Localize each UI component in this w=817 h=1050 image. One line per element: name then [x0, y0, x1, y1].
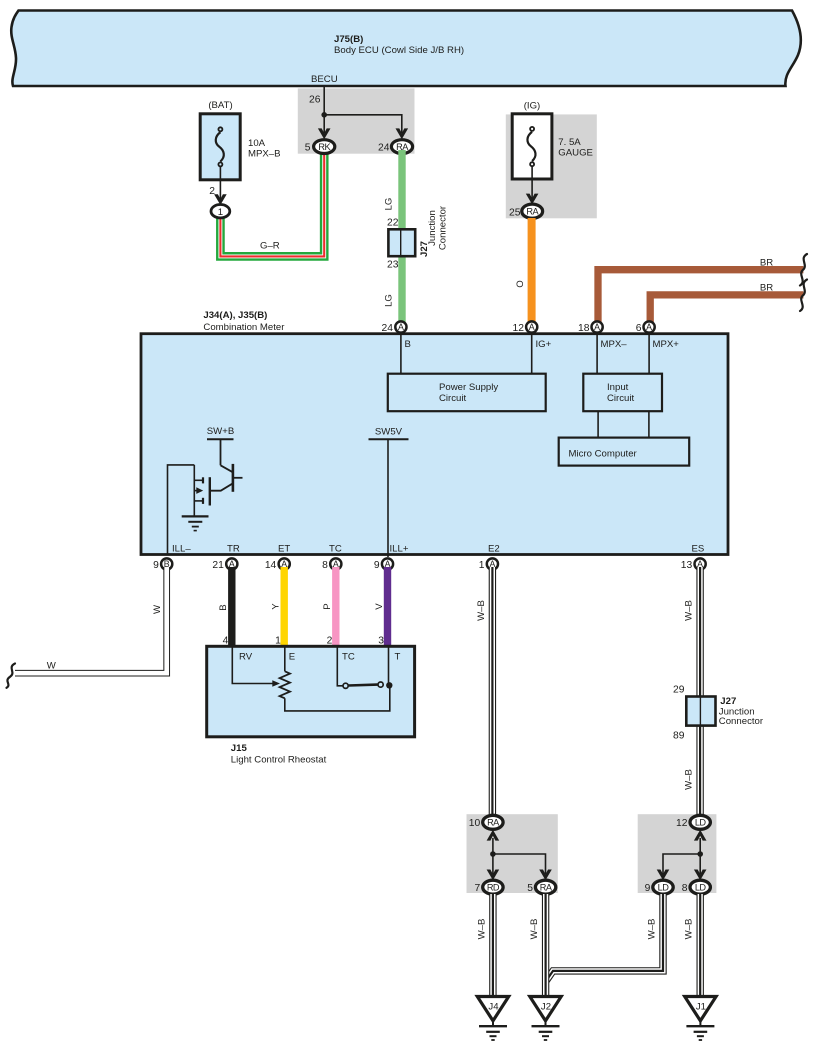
- wire ILL- riser to gate: [168, 465, 195, 554]
- terminal 1 oval: [211, 205, 230, 218]
- svg-text:LD: LD: [695, 883, 707, 893]
- resistor zigzag: [280, 671, 290, 698]
- relay shade box right: [638, 814, 717, 893]
- switch lever: [349, 683, 378, 687]
- wire V violet ILL+: [384, 567, 391, 648]
- svg-text:14: 14: [265, 560, 277, 571]
- wire BR to MPX+: [650, 295, 803, 322]
- node dot left: [490, 851, 496, 857]
- node T dot: [386, 682, 392, 688]
- input circuit box: [583, 374, 662, 412]
- svg-text:T: T: [395, 652, 401, 663]
- mosfet stub upper: [194, 479, 203, 481]
- wire E lead: [284, 646, 286, 671]
- svg-text:A: A: [646, 322, 652, 332]
- meter bottom terminal 9 B: [161, 558, 172, 569]
- svg-text:ILL+: ILL+: [390, 544, 409, 555]
- relay shade box left: [467, 814, 558, 893]
- wiper arrow: [272, 680, 280, 687]
- svg-text:5: 5: [527, 883, 533, 894]
- wire 12 LD to junction: [699, 838, 701, 854]
- svg-text:SW5V: SW5V: [375, 427, 403, 438]
- svg-text:Connector: Connector: [719, 716, 764, 727]
- meter bottom terminal 21 A: [226, 558, 237, 569]
- svg-text:A: A: [529, 322, 535, 332]
- wire W-B 9 LD to J2: [546, 894, 663, 981]
- svg-text:J2: J2: [541, 1002, 551, 1013]
- svg-text:ES: ES: [692, 544, 705, 555]
- svg-text:2: 2: [209, 186, 215, 197]
- ground internal: [182, 515, 209, 517]
- svg-text:25: 25: [509, 208, 521, 219]
- wire W-B from E2: [489, 567, 496, 816]
- wire BECU split horizontal: [324, 115, 402, 133]
- arrow into 8 LD: [694, 870, 707, 881]
- svg-text:BECU: BECU: [311, 74, 338, 85]
- svg-text:J27: J27: [720, 696, 736, 707]
- arrow into RA24: [396, 128, 409, 139]
- transistor Q emitter stub: [233, 477, 243, 479]
- svg-text:24: 24: [378, 143, 390, 154]
- svg-text:IG+: IG+: [536, 339, 552, 350]
- wire W-B 7 RD to J4: [489, 894, 496, 997]
- svg-text:W–B: W–B: [684, 919, 695, 940]
- svg-text:Junction: Junction: [427, 210, 438, 246]
- terminal 10 RA oval: [483, 815, 503, 829]
- terminal 12 LD oval: [690, 815, 710, 829]
- svg-text:LG: LG: [384, 294, 395, 307]
- break symbol W: [7, 664, 16, 688]
- svg-text:Connector: Connector: [438, 205, 449, 250]
- wire RV lead: [232, 646, 273, 683]
- svg-text:BR: BR: [760, 257, 773, 268]
- svg-text:W–B: W–B: [646, 919, 657, 940]
- wire LG: [398, 150, 405, 327]
- svg-text:29: 29: [673, 685, 685, 696]
- svg-text:Y: Y: [271, 603, 282, 610]
- svg-text:18: 18: [578, 323, 590, 334]
- svg-text:J4: J4: [488, 1002, 499, 1013]
- mosfet stub lower: [194, 500, 203, 502]
- svg-text:89: 89: [673, 731, 685, 742]
- svg-text:1: 1: [479, 560, 485, 571]
- svg-text:B: B: [405, 339, 411, 350]
- svg-text:9: 9: [374, 560, 380, 571]
- wire 10 RA to junction: [492, 838, 494, 854]
- arrow up into 12 LD: [694, 830, 707, 841]
- svg-text:RA: RA: [487, 818, 500, 828]
- svg-text:TC: TC: [342, 652, 355, 663]
- svg-text:J75(B): J75(B): [334, 34, 363, 45]
- wire B black TR: [228, 567, 235, 648]
- power supply circuit box: [388, 374, 546, 412]
- meter top terminal 24 A: [395, 321, 406, 332]
- svg-text:MPX+: MPX+: [653, 339, 680, 350]
- transistor Q base bar: [232, 464, 235, 492]
- wire W-B 5 RA to J2: [542, 894, 549, 997]
- svg-text:Body ECU (Cowl Side J/B RH): Body ECU (Cowl Side J/B RH): [334, 45, 464, 56]
- ground J2: [530, 997, 561, 1021]
- mosfet body arrow: [194, 490, 198, 492]
- terminal 9 LD oval: [653, 880, 673, 894]
- rheostat J15 box: [207, 646, 415, 737]
- wire trunk to ground: [193, 465, 195, 517]
- svg-text:W: W: [152, 604, 163, 614]
- Body ECU block J75(B) band: [11, 11, 801, 87]
- svg-text:BR: BR: [760, 283, 773, 294]
- break symbol BR1: [800, 254, 807, 286]
- wire fuse BAT to terminal 1: [219, 167, 221, 200]
- wire W from ILL-: [15, 567, 167, 673]
- svg-text:MPX–B: MPX–B: [248, 149, 281, 160]
- svg-text:G–R: G–R: [260, 241, 280, 252]
- wire G-R from fuse 1 to pin 5 RK: [220, 149, 324, 256]
- arrow into 7 RD: [487, 870, 500, 881]
- svg-text:5: 5: [305, 143, 311, 154]
- svg-text:Light Control Rheostat: Light Control Rheostat: [231, 755, 327, 766]
- svg-text:LD: LD: [658, 883, 670, 893]
- svg-text:Combination Meter: Combination Meter: [203, 322, 285, 333]
- svg-text:J15: J15: [231, 743, 248, 754]
- svg-text:W: W: [47, 661, 57, 672]
- svg-text:P: P: [322, 603, 333, 609]
- terminal 8 LD oval: [690, 880, 710, 894]
- svg-text:GAUGE: GAUGE: [558, 147, 593, 158]
- terminal 7 RD oval: [483, 880, 503, 894]
- svg-text:A: A: [398, 322, 404, 332]
- svg-text:12: 12: [513, 323, 525, 334]
- arrow into 9 LD: [657, 870, 670, 881]
- arrow into 25 RA: [526, 194, 539, 205]
- wire P pink TC: [332, 567, 339, 648]
- svg-text:9: 9: [645, 883, 651, 894]
- svg-text:21: 21: [212, 560, 224, 571]
- svg-text:Power Supply: Power Supply: [439, 382, 498, 393]
- ground J1: [685, 997, 716, 1021]
- wire TC lead: [337, 646, 342, 686]
- fuse shade box (IG): [506, 114, 597, 218]
- wire Y yellow ET: [281, 567, 288, 648]
- wire BR to MPX-: [598, 270, 803, 322]
- meter bottom terminal 13 A ES: [695, 558, 706, 569]
- svg-text:B: B: [218, 604, 229, 610]
- terminal 24 RA oval: [391, 140, 412, 154]
- wire BECU drop: [323, 86, 325, 115]
- svg-text:E2: E2: [488, 544, 500, 555]
- meter bottom terminal 9 A ILL+: [382, 558, 393, 569]
- terminal 25 RA oval: [522, 204, 543, 218]
- arrow into RK: [318, 128, 331, 139]
- svg-text:TC: TC: [329, 544, 342, 555]
- node junction dot BECU: [321, 112, 327, 118]
- transistor Q emitter diagonal: [210, 483, 233, 490]
- wire fuse IG to terminal 25: [531, 167, 533, 199]
- svg-text:RV: RV: [239, 652, 253, 663]
- wire MPX- internal: [596, 327, 598, 374]
- meter bottom terminal 8 A: [330, 558, 341, 569]
- wire split left box: [493, 854, 546, 874]
- svg-text:TR: TR: [227, 544, 240, 555]
- break symbol BR2: [800, 280, 807, 312]
- svg-text:Micro Computer: Micro Computer: [569, 449, 638, 460]
- mosfet channel bar: [209, 477, 211, 505]
- terminal 5 RK oval: [314, 140, 335, 154]
- svg-text:Circuit: Circuit: [439, 393, 467, 404]
- svg-text:W–B: W–B: [476, 919, 487, 940]
- meter top terminal 12 A: [526, 321, 537, 332]
- svg-text:12: 12: [676, 818, 688, 829]
- svg-text:RA: RA: [540, 883, 553, 893]
- meter top terminal 18 A: [592, 321, 603, 332]
- wire MPX+ internal: [648, 327, 650, 374]
- svg-text:O: O: [515, 280, 526, 287]
- svg-text:RK: RK: [318, 142, 331, 152]
- meter bottom terminal 14 A: [279, 558, 290, 569]
- svg-text:RD: RD: [487, 883, 500, 893]
- svg-text:V: V: [374, 603, 385, 610]
- svg-text:W–B: W–B: [529, 919, 540, 940]
- arrow up into 10 RA: [487, 830, 500, 841]
- svg-text:23: 23: [387, 260, 399, 271]
- svg-text:10: 10: [469, 818, 481, 829]
- svg-text:LG: LG: [384, 198, 395, 211]
- svg-text:W–B: W–B: [683, 600, 694, 621]
- svg-text:10A: 10A: [248, 138, 266, 149]
- svg-text:ET: ET: [278, 544, 290, 555]
- svg-text:(IG): (IG): [524, 101, 541, 112]
- svg-text:26: 26: [309, 95, 321, 106]
- svg-text:SW+B: SW+B: [207, 426, 234, 437]
- svg-text:Circuit: Circuit: [607, 393, 635, 404]
- svg-text:ILL–: ILL–: [172, 544, 191, 555]
- terminal 5 RA oval: [535, 880, 555, 894]
- svg-text:J1: J1: [696, 1002, 706, 1013]
- svg-text:13: 13: [681, 560, 693, 571]
- svg-text:W–B: W–B: [683, 769, 694, 790]
- wire W-B 8 LD to J1: [697, 894, 704, 997]
- svg-text:W–B: W–B: [476, 600, 487, 621]
- svg-text:LD: LD: [695, 818, 707, 828]
- svg-text:J34(A), J35(B): J34(A), J35(B): [203, 310, 267, 321]
- node dot right: [697, 851, 703, 857]
- meter top terminal 6 A: [644, 321, 655, 332]
- switch contact circle 1: [343, 683, 348, 688]
- mosfet bar lower: [202, 498, 204, 504]
- connector shade box BECU: [298, 88, 415, 153]
- svg-text:E: E: [289, 652, 295, 663]
- wire O orange: [528, 218, 536, 327]
- wires input circuit to micro computer: [597, 411, 599, 437]
- wire T lead: [388, 646, 390, 685]
- svg-text:6: 6: [636, 323, 642, 334]
- svg-text:8: 8: [322, 560, 328, 571]
- wire W-B from ES: [696, 567, 703, 816]
- wire IG+ internal: [531, 327, 533, 374]
- arrow into 5 RA: [539, 870, 552, 881]
- svg-text:24: 24: [382, 323, 394, 334]
- svg-text:Input: Input: [607, 382, 629, 393]
- svg-text:9: 9: [153, 560, 159, 571]
- svg-text:MPX–: MPX–: [601, 339, 628, 350]
- svg-text:1: 1: [218, 207, 223, 218]
- svg-text:A: A: [594, 322, 600, 332]
- svg-text:RA: RA: [526, 207, 539, 217]
- ground J4: [477, 997, 508, 1021]
- wire resistor bottom to T node: [285, 685, 390, 711]
- wire split right box: [663, 854, 700, 874]
- micro computer box: [559, 438, 690, 466]
- switch contact circle 2: [378, 682, 383, 687]
- transistor Q collector diagonal: [221, 465, 233, 472]
- svg-text:8: 8: [682, 883, 688, 894]
- wire B internal: [400, 327, 402, 374]
- arrow into terminal 1: [214, 194, 227, 205]
- svg-text:(BAT): (BAT): [208, 100, 232, 111]
- meter bottom terminal 1 A E2: [487, 558, 498, 569]
- mosfet gate bar upper: [202, 477, 204, 483]
- svg-text:7: 7: [474, 883, 480, 894]
- svg-text:22: 22: [387, 218, 399, 229]
